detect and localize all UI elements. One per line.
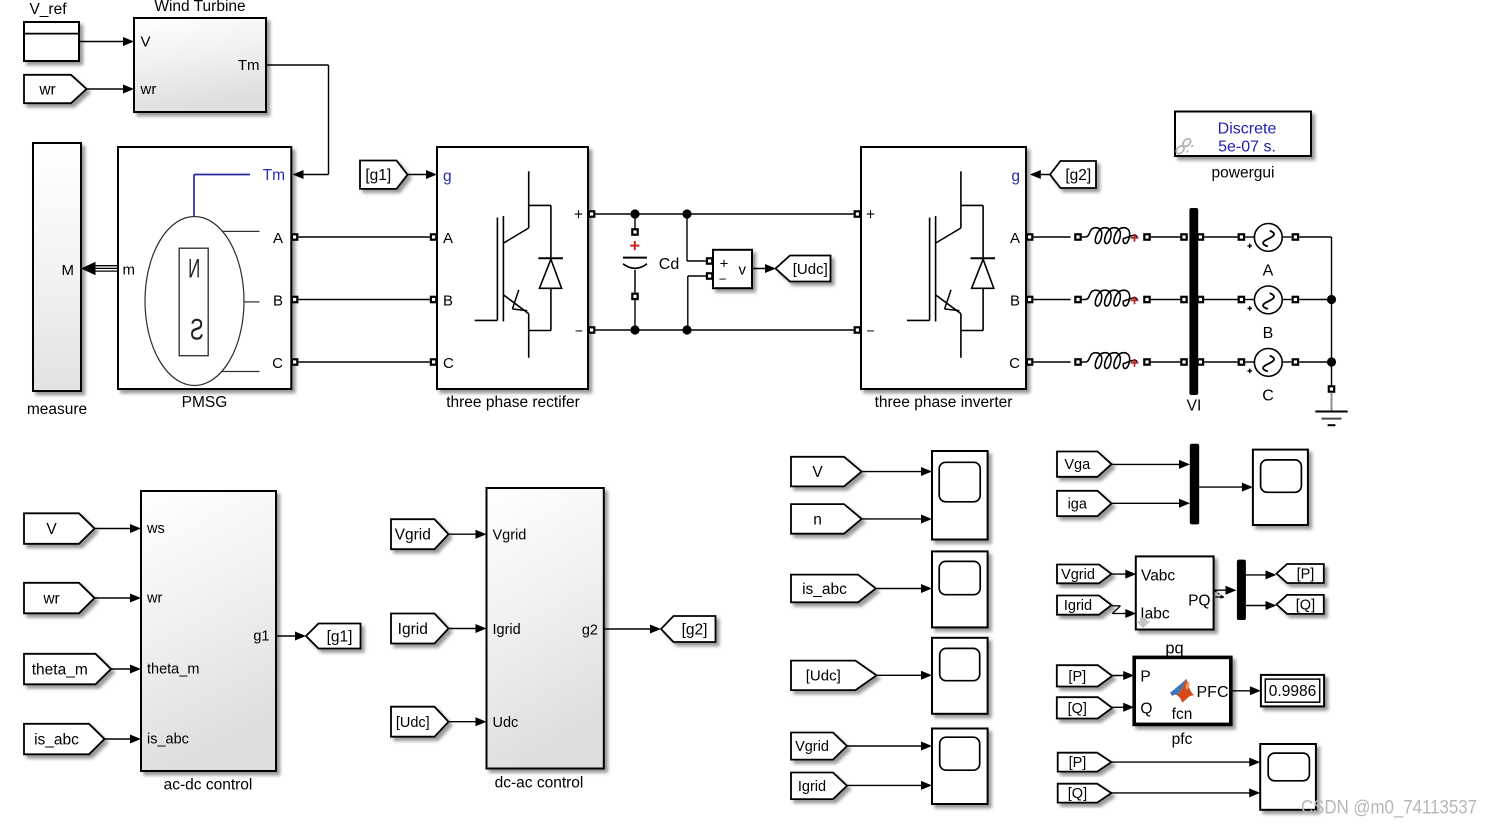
port square VI A right <box>1197 233 1205 241</box>
wire phase C PMSG-rectifier <box>298 361 429 363</box>
svg-text:theta_m: theta_m <box>147 662 199 678</box>
label source A <box>1263 263 1274 280</box>
svg-text:Igrid: Igrid <box>798 779 826 795</box>
port square inductor A right <box>1143 233 1151 241</box>
port label A <box>273 230 283 247</box>
display 0.9986 <box>1261 675 1324 707</box>
port square VI A left <box>1180 233 1188 241</box>
svg-text:−: − <box>719 272 727 287</box>
svg-text:V: V <box>46 521 57 538</box>
port square rectifier minus <box>588 326 596 334</box>
wire DC plus rail <box>595 213 853 215</box>
svg-text:is_abc: is_abc <box>34 731 79 748</box>
wire Vga to mux <box>1112 460 1191 469</box>
wire Udc to scope3 <box>877 671 932 680</box>
svg-text:[Udc]: [Udc] <box>793 261 828 278</box>
svg-text:Udc: Udc <box>493 715 519 731</box>
inductor B <box>1082 290 1137 306</box>
wire demux to P <box>1246 570 1277 579</box>
wire mux to scope5 <box>1199 483 1253 492</box>
svg-text:Vga: Vga <box>1064 457 1091 473</box>
rectifier port label A <box>443 230 453 247</box>
svg-text:wr: wr <box>42 590 59 607</box>
label ac-dc control <box>164 777 253 794</box>
wire source A stub right <box>1282 236 1291 238</box>
wire Q to pfc <box>1112 703 1134 712</box>
wire PQ to demux <box>1214 586 1237 595</box>
rectifier IGBT diode icon <box>475 171 563 357</box>
svg-text:PQ: PQ <box>1188 593 1210 610</box>
svg-text:Vgrid: Vgrid <box>1061 567 1095 583</box>
from tag g2 <box>1050 161 1096 188</box>
junction DC minus cap <box>630 325 639 334</box>
svg-text:Tm: Tm <box>238 57 260 74</box>
junction rail B <box>1327 295 1336 304</box>
svg-text:[P]: [P] <box>1069 755 1087 771</box>
svg-text:C: C <box>272 355 283 372</box>
inverter IGBT diode icon <box>907 171 995 357</box>
svg-text:[P]: [P] <box>1068 669 1086 685</box>
svg-text:C: C <box>1262 388 1274 405</box>
port square vm plus <box>706 257 714 265</box>
label pq <box>1165 640 1183 658</box>
svg-text:g: g <box>1011 168 1020 185</box>
port square inverter minus <box>854 326 862 334</box>
wire wr to wr <box>95 594 142 603</box>
grid rail right <box>1331 237 1333 385</box>
port square source A left <box>1238 233 1246 241</box>
from tag Vgrid3 <box>1057 565 1112 584</box>
wire Vgrid to scope4 <box>847 742 932 751</box>
from tag wr2 <box>24 583 95 614</box>
wire inverter B to inductor <box>1033 299 1070 301</box>
svg-text:powergui: powergui <box>1212 165 1275 182</box>
svg-text:[Q]: [Q] <box>1068 786 1087 802</box>
port label g blue <box>443 168 452 185</box>
svg-text:iga: iga <box>1068 497 1088 513</box>
from tag Igrid3 <box>1057 596 1112 615</box>
wire n to scope1 <box>862 515 932 524</box>
wire Igrid to Iabc <box>1122 609 1136 618</box>
from tag theta_m <box>24 654 111 685</box>
svg-text:C: C <box>443 355 454 372</box>
block measure <box>33 143 81 391</box>
wire pfc to display <box>1231 686 1261 695</box>
inverter port label A <box>1010 230 1020 247</box>
wire vm minus <box>688 276 706 330</box>
port square source B left <box>1238 296 1246 304</box>
port label Tm blue <box>263 167 285 184</box>
label measure <box>27 401 87 418</box>
from tag Vgrid <box>391 519 449 549</box>
ground symbol <box>1315 393 1347 425</box>
svg-text:ws: ws <box>146 521 165 537</box>
svg-text:Igrid: Igrid <box>1064 598 1092 614</box>
block pfc MATLAB function <box>1134 657 1231 724</box>
port square PMSG B <box>291 296 299 304</box>
svg-text:S: S <box>190 314 204 347</box>
junction rail C <box>1327 357 1336 366</box>
label source B <box>1263 325 1274 342</box>
wire is_abc to scope2 <box>876 584 932 593</box>
inductor A <box>1082 228 1137 244</box>
inverter port label g blue <box>1011 168 1020 185</box>
svg-text:[Q]: [Q] <box>1068 701 1087 717</box>
from tag P2 <box>1058 753 1112 772</box>
svg-text:CSDN @m0_74113537: CSDN @m0_74113537 <box>1301 797 1477 819</box>
port label B <box>273 293 283 310</box>
PMSG stator lead A <box>222 230 260 232</box>
AC source A <box>1248 224 1283 252</box>
inverter port label C <box>1009 355 1020 372</box>
wire inductor C to VI <box>1151 361 1180 363</box>
wire inverter A to inductor <box>1033 236 1070 238</box>
wire source B stub right <box>1282 299 1291 301</box>
svg-text:−: − <box>575 323 583 339</box>
junction DC minus vm <box>682 325 691 334</box>
PMSG letter S mirrored <box>190 314 204 347</box>
svg-text:Vabc: Vabc <box>1141 568 1175 585</box>
wire wr to Wind Turbine <box>87 85 135 94</box>
goto tag Udc <box>776 256 831 282</box>
port square source C left <box>1238 358 1246 366</box>
svg-text:Vgrid: Vgrid <box>395 527 431 544</box>
svg-text:Vgrid: Vgrid <box>493 528 527 544</box>
inverter port label minus <box>866 323 874 339</box>
watermark CSDN <box>1301 797 1477 819</box>
goto tag P <box>1277 564 1324 583</box>
wire inductor A to VI <box>1151 236 1180 238</box>
goto tag Q <box>1277 595 1324 614</box>
from tag Vga <box>1057 452 1112 477</box>
svg-text:wr: wr <box>140 81 157 98</box>
wire Tm to PMSG <box>266 65 329 179</box>
port square inductor B right <box>1143 296 1151 304</box>
PMSG stator lead C <box>221 371 260 373</box>
svg-text:pq: pq <box>1165 640 1183 658</box>
svg-text:V: V <box>812 464 823 481</box>
scope Vgrid Igrid <box>932 729 988 805</box>
wire vm plus <box>687 214 706 261</box>
from tag V2 <box>791 457 862 487</box>
wire Vgrid to dc-ac <box>449 530 487 539</box>
svg-text:g2: g2 <box>582 622 598 638</box>
svg-text:Igrid: Igrid <box>398 621 428 638</box>
wire VI to source C <box>1204 361 1237 363</box>
wire source C stub right <box>1282 361 1291 363</box>
from tag Igrid <box>391 614 449 644</box>
svg-text:[Udc]: [Udc] <box>396 715 430 731</box>
svg-text:wr: wr <box>38 81 55 98</box>
block three phase inverter <box>861 147 1026 389</box>
port square source C right <box>1292 358 1300 366</box>
svg-text:[P]: [P] <box>1297 567 1315 583</box>
svg-text:is_abc: is_abc <box>802 581 847 598</box>
svg-text:three phase inverter: three phase inverter <box>875 394 1013 411</box>
wire g2 to inverter g <box>1030 170 1050 179</box>
svg-text:Wind Turbine: Wind Turbine <box>154 0 245 15</box>
svg-text:+: + <box>866 207 875 224</box>
MATLAB logo <box>1170 679 1194 703</box>
wire Udc to dc-ac <box>449 717 487 726</box>
inductor C red plus <box>1131 359 1139 367</box>
svg-text:V_ref: V_ref <box>29 1 67 18</box>
wire P to pfc <box>1112 671 1134 680</box>
svg-text:ac-dc control: ac-dc control <box>164 777 253 794</box>
from tag is_abc <box>24 724 105 755</box>
port square rectifier A <box>430 233 438 241</box>
svg-text:[g1]: [g1] <box>327 628 353 645</box>
label three phase rectifer <box>446 394 580 411</box>
port square source A right <box>1292 233 1300 241</box>
svg-text:[Udc]: [Udc] <box>806 668 841 685</box>
scope is_abc <box>932 551 988 627</box>
svg-text:Cd: Cd <box>659 256 679 273</box>
svg-text:Tm: Tm <box>263 167 285 184</box>
wire blue Tm internal <box>194 175 250 217</box>
AC source B <box>1248 286 1283 314</box>
from tag Vgrid2 <box>791 733 847 760</box>
svg-text:A: A <box>1010 230 1020 247</box>
label pfc <box>1172 731 1193 748</box>
port square inductor B left <box>1074 296 1082 304</box>
svg-text:B: B <box>273 293 283 310</box>
svg-text:Discrete: Discrete <box>1218 120 1277 137</box>
port square inductor C right <box>1143 358 1151 366</box>
svg-text:B: B <box>1263 325 1274 342</box>
svg-text:0.9986: 0.9986 <box>1269 683 1316 700</box>
svg-text:g1: g1 <box>253 629 269 645</box>
AC source C <box>1248 349 1283 377</box>
svg-text:5e-07 s.: 5e-07 s. <box>1218 138 1276 155</box>
wire Vgrid to Vabc <box>1111 570 1136 579</box>
wire inductor B to VI <box>1151 299 1180 301</box>
from tag Q <box>1057 697 1112 718</box>
label Cd <box>659 256 679 273</box>
block voltage measurement <box>713 250 752 288</box>
gray arrow annotation <box>1136 618 1150 629</box>
svg-text:g: g <box>443 168 452 185</box>
wire demux to Q <box>1246 601 1277 610</box>
svg-text:N: N <box>188 253 200 283</box>
svg-text:P: P <box>1140 668 1150 685</box>
svg-text:A: A <box>1263 263 1274 280</box>
wire phase B PMSG-rectifier <box>298 299 429 301</box>
wire V to ws <box>95 524 142 533</box>
svg-text:V: V <box>141 34 151 51</box>
rectifier port label B <box>443 293 453 310</box>
rectifier port label C <box>443 355 454 372</box>
scope P Q <box>1260 744 1316 810</box>
from tag is_abc2 <box>791 575 876 603</box>
block dc-ac control <box>487 488 604 769</box>
svg-text:[Q]: [Q] <box>1296 597 1315 613</box>
svg-text:v: v <box>739 261 747 278</box>
port square rectifier plus <box>588 210 596 218</box>
port square inverter B <box>1026 296 1034 304</box>
demux pq <box>1237 560 1246 620</box>
svg-text:+: + <box>574 207 583 224</box>
wire Q to scope6 <box>1111 788 1260 797</box>
wire cap top <box>634 214 636 228</box>
svg-text:VI: VI <box>1187 398 1202 415</box>
wire source C stub left <box>1245 361 1254 363</box>
port square source B right <box>1292 296 1300 304</box>
wire VI to source B <box>1204 299 1237 301</box>
inverter port label B <box>1010 293 1020 310</box>
from tag n <box>791 504 862 534</box>
junction DC plus vm <box>682 209 691 218</box>
port square cap top <box>631 228 639 236</box>
rectifier port label plus <box>574 207 583 224</box>
PMSG letter N mirrored <box>188 253 200 283</box>
svg-text:theta_m: theta_m <box>32 661 88 678</box>
wire source A to rail <box>1299 236 1331 238</box>
capacitor red plus <box>630 241 639 250</box>
port square inductor A left <box>1074 233 1082 241</box>
svg-text:is_abc: is_abc <box>147 732 189 748</box>
wire theta_m <box>111 665 141 674</box>
wire source B to rail <box>1299 299 1331 301</box>
svg-text:dc-ac control: dc-ac control <box>495 775 584 792</box>
from tag g1 <box>360 161 408 189</box>
wire g1 out <box>276 632 306 641</box>
port label C <box>272 355 283 372</box>
port square VI B right <box>1197 296 1205 304</box>
block ac-dc control <box>141 491 276 771</box>
port square cap bottom <box>631 293 639 301</box>
wire V_ref to Wind Turbine V <box>79 37 134 46</box>
port square rectifier B <box>430 296 438 304</box>
from tag wr <box>24 75 87 103</box>
scope V n <box>932 451 988 540</box>
block Wind Turbine <box>134 18 266 112</box>
wire phase A PMSG-rectifier <box>298 236 429 238</box>
inductor B red plus <box>1131 296 1139 304</box>
port square rectifier C <box>430 358 438 366</box>
label three phase inverter <box>875 394 1013 411</box>
wire Igrid to scope4 <box>847 781 932 790</box>
VI measurement bar <box>1189 208 1198 395</box>
port square PMSG A <box>291 233 299 241</box>
goto tag g2 <box>661 616 716 642</box>
wire v to Udc goto <box>752 264 776 273</box>
from tag Udc3 <box>791 661 877 691</box>
wire g1 to rectifier g <box>408 170 438 179</box>
svg-text:PFC: PFC <box>1197 684 1229 701</box>
label powergui <box>1212 165 1275 182</box>
wire source B stub left <box>1245 299 1254 301</box>
wire Igrid to dc-ac <box>449 624 487 633</box>
svg-text:A: A <box>273 230 283 247</box>
svg-text:three phase rectifer: three phase rectifer <box>446 394 580 411</box>
svg-text:Igrid: Igrid <box>493 622 521 638</box>
block powergui <box>1175 112 1311 157</box>
label PMSG <box>182 394 228 411</box>
junction DC plus cap <box>630 209 639 218</box>
PQ signal marker <box>1215 591 1225 599</box>
from tag Igrid2 <box>791 773 847 800</box>
svg-text:m: m <box>123 262 136 279</box>
wire inverter C to inductor <box>1033 361 1070 363</box>
label Wind Turbine <box>154 0 245 15</box>
svg-text:[g2]: [g2] <box>1065 167 1091 184</box>
svg-text:[g1]: [g1] <box>365 167 391 184</box>
wire source A stub left <box>1245 236 1254 238</box>
scope Vga iga <box>1253 450 1308 525</box>
wire P to scope6 <box>1111 758 1260 767</box>
from tag V <box>24 513 95 544</box>
inverter port label plus <box>866 207 875 224</box>
port label m <box>123 262 136 279</box>
goto tag g1 <box>306 624 361 649</box>
svg-text:Q: Q <box>1140 700 1152 717</box>
rectifier port label minus <box>575 323 583 339</box>
wire source C to rail <box>1299 361 1331 363</box>
scope Udc <box>932 638 988 714</box>
wire VI to source A <box>1204 236 1237 238</box>
port square inductor C left <box>1074 358 1082 366</box>
svg-text:A: A <box>443 230 453 247</box>
port square VI C left <box>1180 358 1188 366</box>
port square vm minus <box>706 272 714 280</box>
block three phase rectifier <box>437 147 588 389</box>
label VI <box>1187 398 1202 415</box>
svg-text:PMSG: PMSG <box>182 394 228 411</box>
port square ground <box>1328 385 1336 393</box>
port square inverter C <box>1026 358 1034 366</box>
block PMSG <box>118 147 291 389</box>
port square inverter plus <box>854 210 862 218</box>
wire cap bottom <box>634 300 636 330</box>
from tag Q2 <box>1058 784 1112 803</box>
PMSG magnet bar <box>179 248 208 356</box>
PMSG rotor ellipse <box>145 217 244 386</box>
port square VI C right <box>1197 358 1205 366</box>
block V_ref signal source <box>24 22 79 61</box>
wire is_abc <box>104 735 141 744</box>
svg-text:measure: measure <box>27 401 87 418</box>
svg-text:C: C <box>1009 355 1020 372</box>
wire iga to mux <box>1112 499 1191 508</box>
label V_ref <box>29 1 67 18</box>
from tag iga <box>1057 491 1112 516</box>
svg-text:B: B <box>443 293 453 310</box>
wire DC minus rail <box>595 329 853 331</box>
sample time Z marker <box>1112 606 1122 614</box>
capacitor Cd symbol <box>623 258 647 293</box>
mux Vga iga <box>1190 444 1199 525</box>
svg-text:[g2]: [g2] <box>682 621 708 638</box>
label source C <box>1262 388 1274 405</box>
from tag Udc2 <box>391 707 449 737</box>
svg-text:Vgrid: Vgrid <box>795 739 829 755</box>
inductor A red plus <box>1131 234 1139 242</box>
wire V to scope1 <box>862 467 932 476</box>
port square inverter A <box>1026 233 1034 241</box>
port square PMSG C <box>291 358 299 366</box>
svg-text:+: + <box>720 255 729 272</box>
svg-text:n: n <box>813 511 822 528</box>
inductor C <box>1082 353 1137 369</box>
block pq <box>1136 556 1214 629</box>
svg-text:M: M <box>62 262 75 279</box>
svg-text:B: B <box>1010 293 1020 310</box>
label dc-ac control <box>495 775 584 792</box>
bus wire m to M <box>81 262 118 276</box>
PMSG stator lead B <box>244 301 260 303</box>
wire g2 out <box>604 625 661 634</box>
